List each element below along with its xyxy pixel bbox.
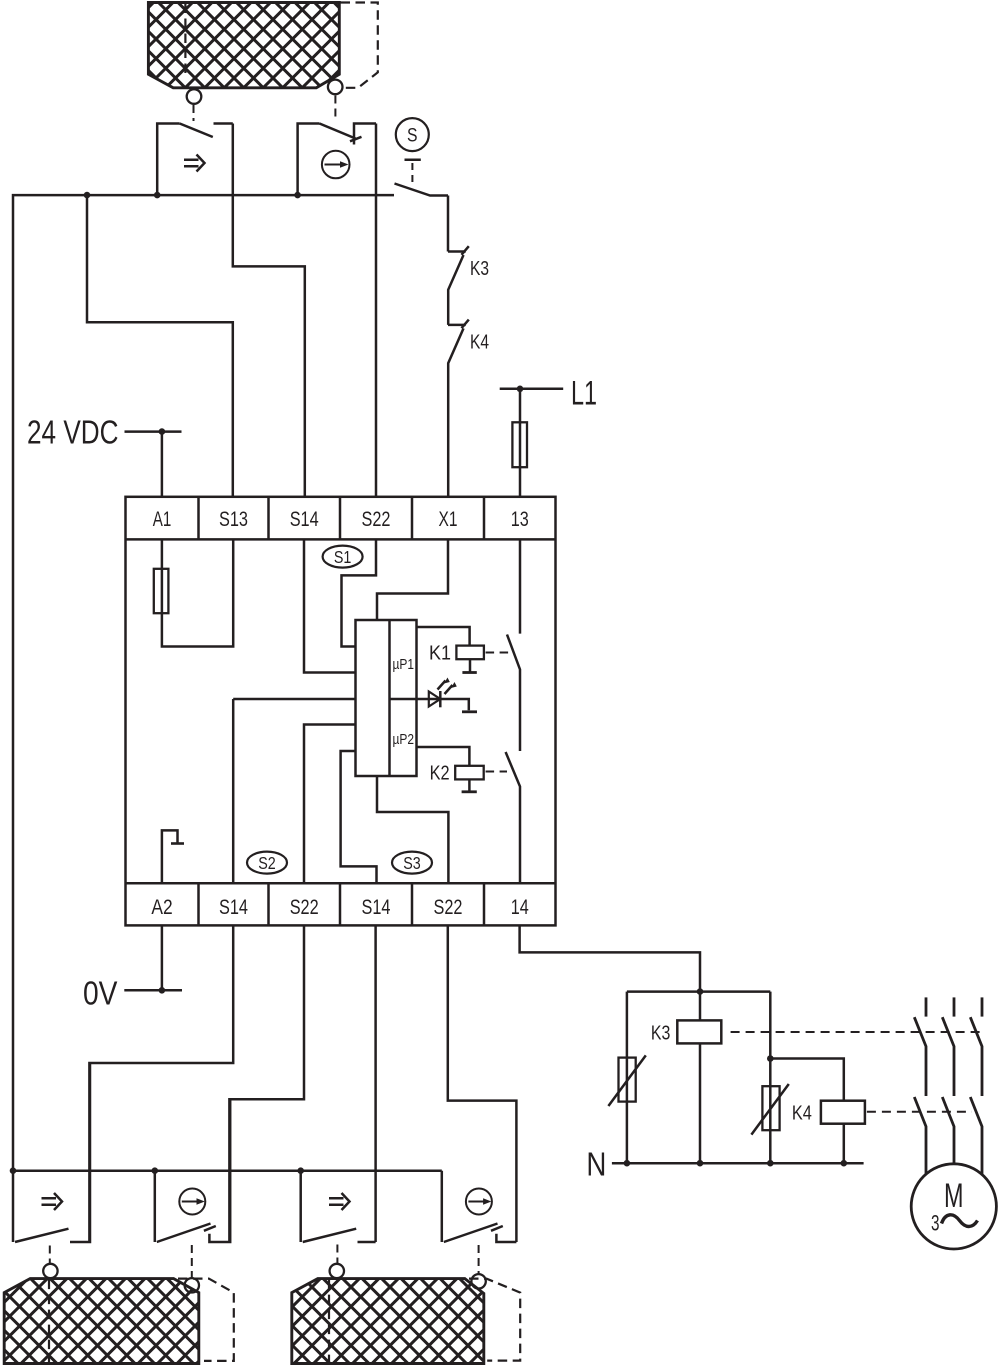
varistor RV1 <box>608 1055 645 1106</box>
motor M 3~ <box>911 1164 996 1249</box>
cam block B2 (bottom left, hatched) <box>4 1279 199 1364</box>
roller R1a <box>187 89 202 104</box>
relay coil K2 <box>417 747 484 792</box>
oval label S3 <box>392 852 432 874</box>
wire varistor1 branch <box>626 992 629 1058</box>
oval label S1 <box>323 546 363 568</box>
position switch B3.2 (roller type) <box>442 1171 517 1242</box>
roller R2a <box>43 1264 57 1278</box>
svg-text:K2: K2 <box>430 763 450 785</box>
wire S22b1 to switch B2.2 <box>229 925 304 1242</box>
mechanical link K2 (dashed) <box>486 771 507 773</box>
oval label S2 <box>247 852 287 874</box>
svg-text:K3: K3 <box>651 1023 671 1045</box>
wire fuse to 13 <box>519 467 522 497</box>
roller R1b <box>328 80 343 95</box>
roller R3a <box>330 1264 344 1278</box>
node dot bus-S13 branch <box>84 192 91 199</box>
wire L1 <box>500 388 564 391</box>
wire S14b2 internal <box>341 751 377 883</box>
main contact K4 phase1 <box>914 1097 926 1174</box>
wire varistor1 to N <box>626 1102 629 1164</box>
svg-text:S14: S14 <box>219 895 248 919</box>
svg-text:S22: S22 <box>434 895 463 919</box>
cam B3 shifted position (dashed) <box>329 1279 520 1363</box>
roller R2b <box>185 1278 199 1292</box>
contact K2 <box>506 752 520 883</box>
cam B2 shifted position (dashed) <box>49 1279 234 1363</box>
mechanical link K1 (dashed) <box>486 652 509 654</box>
svg-text:S14: S14 <box>290 507 319 531</box>
node dot rail-B3.1 <box>297 1167 304 1174</box>
main contact K3 phase1 <box>914 1017 926 1096</box>
actuator link B3.1 (dashed) <box>336 1245 338 1264</box>
position switch B1.1 (arrow type) <box>157 124 233 196</box>
contact K1 <box>507 635 520 752</box>
svg-text:S13: S13 <box>219 507 248 531</box>
wire branch to K4 coil <box>770 1059 844 1101</box>
node dot 14-branch <box>697 988 704 995</box>
mechanical link K3 (dashed) <box>731 1031 985 1033</box>
internal fuse F1 <box>154 539 169 613</box>
wire S22b2 to switch B3.2 <box>448 925 517 1242</box>
node dot N-RV1 <box>624 1160 631 1167</box>
main contact K3 phase2 <box>942 1017 954 1096</box>
svg-text:µP2: µP2 <box>393 732 415 748</box>
actuator link B3.2 (dashed) <box>478 1245 480 1274</box>
wire uP to S22b2 internal <box>377 776 448 883</box>
cam block B3 (bottom right, hatched) <box>292 1279 484 1364</box>
node dot N-RV2 <box>767 1160 774 1167</box>
actuator link (dashed) <box>334 96 336 122</box>
wire contactor top bar <box>627 990 770 993</box>
node dot N-K4 <box>841 1160 848 1167</box>
relay coil K1 <box>417 627 484 673</box>
node dot K4 branch <box>767 1055 774 1062</box>
wire bottom rail <box>13 1169 442 1172</box>
svg-text:A1: A1 <box>153 507 172 531</box>
svg-text:14: 14 <box>511 895 529 919</box>
position switch B1.2 (roller type) <box>298 124 376 196</box>
phase L1 supply stub <box>925 997 928 1016</box>
svg-text:S14: S14 <box>362 895 391 919</box>
phase L2 supply stub <box>953 997 956 1016</box>
actuator link B2.1 (dashed) <box>49 1246 51 1264</box>
actuator link (dashed) <box>193 105 195 121</box>
svg-text:S22: S22 <box>290 895 319 919</box>
svg-text:X1: X1 <box>439 507 458 531</box>
svg-text:24 VDC: 24 VDC <box>27 414 119 451</box>
wire varistor2 to N <box>769 1130 772 1163</box>
svg-text:K4: K4 <box>470 332 489 354</box>
svg-text:µP1: µP1 <box>393 657 415 673</box>
A2 internal stub <box>162 830 184 883</box>
wire bus to S13 <box>87 195 233 497</box>
microprocessor block uP1/uP2 <box>356 620 417 776</box>
roller R3b <box>471 1274 485 1288</box>
wire 13 to contact K1 <box>519 539 522 633</box>
cam B1 shifted position (dashed) <box>185 3 377 88</box>
wire bus 24V <box>13 195 394 1171</box>
node dot bus-left switch <box>154 192 161 199</box>
svg-text:L1: L1 <box>571 375 597 413</box>
main contact K3 phase3 <box>970 1017 982 1096</box>
svg-text:K3: K3 <box>470 258 489 280</box>
wire S14b1 to switch B2.1 <box>89 925 233 1242</box>
svg-text:K1: K1 <box>429 643 451 665</box>
LED D1 <box>417 678 478 712</box>
wire S14 to uP <box>304 539 356 672</box>
contactor coil K3 <box>677 992 721 1164</box>
wire S to K3 contact <box>447 196 450 252</box>
svg-text:N: N <box>586 1146 606 1183</box>
actuator link B2.2 (dashed) <box>191 1245 193 1278</box>
node dot 24VDC <box>159 428 166 435</box>
position switch B2.2 (roller type) <box>155 1099 230 1242</box>
fuse F2 <box>512 422 527 467</box>
pushbutton S (start) <box>395 118 449 195</box>
wire 14 to contactor circuit <box>520 925 700 991</box>
safety relay U1 outline <box>126 497 556 926</box>
svg-text:S22: S22 <box>362 507 391 531</box>
cam block B1 (top, hatched) <box>148 3 339 88</box>
svg-text:S: S <box>407 125 418 147</box>
contact K4 (NC in start circuit) <box>448 320 469 497</box>
node dot L1 <box>517 386 524 393</box>
svg-text:S1: S1 <box>334 547 352 567</box>
svg-text:S3: S3 <box>403 853 421 873</box>
wire S14b1 internal <box>232 699 235 883</box>
contact K3 (NC in start circuit) <box>448 246 469 325</box>
wire X1 to uP <box>377 539 448 620</box>
node dot rail-B2.2 <box>152 1167 159 1174</box>
wire N rail <box>612 1162 864 1165</box>
wire switch B1.2 to S22 <box>375 124 378 497</box>
wire L1 to fuse <box>519 389 522 423</box>
phase L3 supply stub <box>981 997 984 1016</box>
svg-text:3: 3 <box>931 1211 940 1236</box>
position switch B2.1 (arrow type) <box>13 1063 90 1242</box>
wire A1 loop to S13 <box>162 539 233 646</box>
svg-text:S2: S2 <box>258 853 276 873</box>
wire 0V <box>124 989 182 992</box>
node dot rail-left <box>10 1167 17 1174</box>
node dot N-K3 <box>697 1160 704 1167</box>
position switch B3.1 (arrow type) <box>301 1171 376 1242</box>
mechanical link K4 (dashed) <box>867 1111 972 1113</box>
wire S14b2 to switch B3.1 <box>374 925 377 1242</box>
svg-text:0V: 0V <box>83 975 118 1012</box>
wire A2 to 0V <box>161 925 164 990</box>
svg-text:K4: K4 <box>792 1103 812 1125</box>
svg-text:A2: A2 <box>151 895 172 919</box>
node dot bus-right switch <box>294 192 301 199</box>
node dot 0V <box>159 987 166 994</box>
wire S22 to uP <box>342 539 377 646</box>
contactor coil K4 <box>821 1101 865 1164</box>
main contact K4 phase3 <box>970 1097 982 1175</box>
wire switch B1.1 to S14 <box>233 124 305 497</box>
main contact K4 phase2 <box>942 1097 954 1164</box>
wire 24VDC to A1 <box>161 432 164 497</box>
wire K4 branch <box>769 992 772 1059</box>
wire S22b1 internal <box>304 725 356 884</box>
svg-text:M: M <box>944 1177 964 1215</box>
LED wire uP divider <box>390 698 417 701</box>
svg-text:13: 13 <box>511 507 529 531</box>
LED wire from S14b1 <box>233 698 355 701</box>
wire 24VDC <box>125 430 182 433</box>
varistor RV2 <box>751 1059 788 1135</box>
